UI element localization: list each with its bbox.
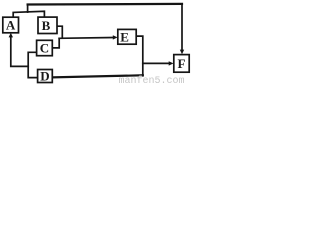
- wire top line to F drop: [28, 3, 182, 6]
- box C: [37, 40, 53, 55]
- svg-text:F: F: [178, 56, 186, 71]
- svg-text:D: D: [40, 69, 49, 84]
- svg-text:E: E: [120, 29, 129, 44]
- box B: [38, 17, 57, 33]
- svg-text:C: C: [40, 41, 49, 56]
- wire C output right riser: [52, 38, 59, 48]
- wire D output to right bus: [52, 75, 143, 77]
- arrowhead into F top: [180, 50, 184, 55]
- wire C output left to bus: [28, 52, 37, 77]
- svg-text:B: B: [42, 18, 51, 33]
- svg-text:manfen5.com: manfen5.com: [119, 75, 185, 84]
- wire F feed branch: [143, 62, 170, 64]
- wire A feed from bus: [11, 37, 28, 67]
- arrowhead into F left: [169, 61, 174, 65]
- box F: [174, 55, 189, 73]
- arrowhead into A bottom: [9, 33, 13, 38]
- box E: [118, 29, 136, 44]
- wire E feed line: [59, 37, 113, 40]
- box A: [3, 17, 19, 33]
- svg-text:A: A: [6, 18, 16, 33]
- arrowhead into E left: [113, 35, 118, 39]
- wire bracket over A and B: [13, 11, 44, 17]
- box D: [38, 70, 53, 83]
- wire B output to E line: [57, 26, 62, 38]
- wire riser to top line: [27, 5, 29, 13]
